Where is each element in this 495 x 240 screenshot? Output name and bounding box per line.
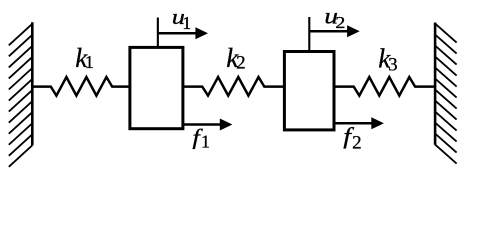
svg-text:2: 2 [236, 52, 246, 73]
label k1 [75, 43, 94, 73]
spring k3 [334, 77, 435, 96]
arrow u2 [309, 25, 359, 37]
wall left hatching [9, 24, 33, 167]
mass M2 [284, 52, 334, 130]
arrow f1 [183, 119, 233, 131]
spring k1 [33, 77, 130, 96]
wall left vertical line [31, 22, 34, 145]
label u1 [172, 5, 192, 33]
svg-text:2: 2 [335, 14, 345, 33]
svg-text:3: 3 [388, 55, 398, 76]
arrow u2 stub [308, 17, 310, 53]
svg-text:2: 2 [352, 132, 362, 153]
wall right vertical line [434, 23, 437, 145]
label f1 [192, 125, 210, 151]
wall right hatching [435, 24, 457, 164]
svg-text:1: 1 [201, 132, 210, 152]
svg-text:1: 1 [182, 13, 191, 33]
arrow f2 [334, 117, 384, 129]
arrow u1 stub [157, 18, 159, 49]
label f2 [343, 123, 361, 153]
label k2 [226, 43, 245, 74]
svg-text:1: 1 [85, 52, 94, 72]
spring k2 [183, 77, 285, 96]
label k3 [378, 43, 397, 75]
label u2 [324, 4, 345, 33]
arrow u1 [158, 27, 208, 39]
mass M1 [130, 47, 183, 128]
